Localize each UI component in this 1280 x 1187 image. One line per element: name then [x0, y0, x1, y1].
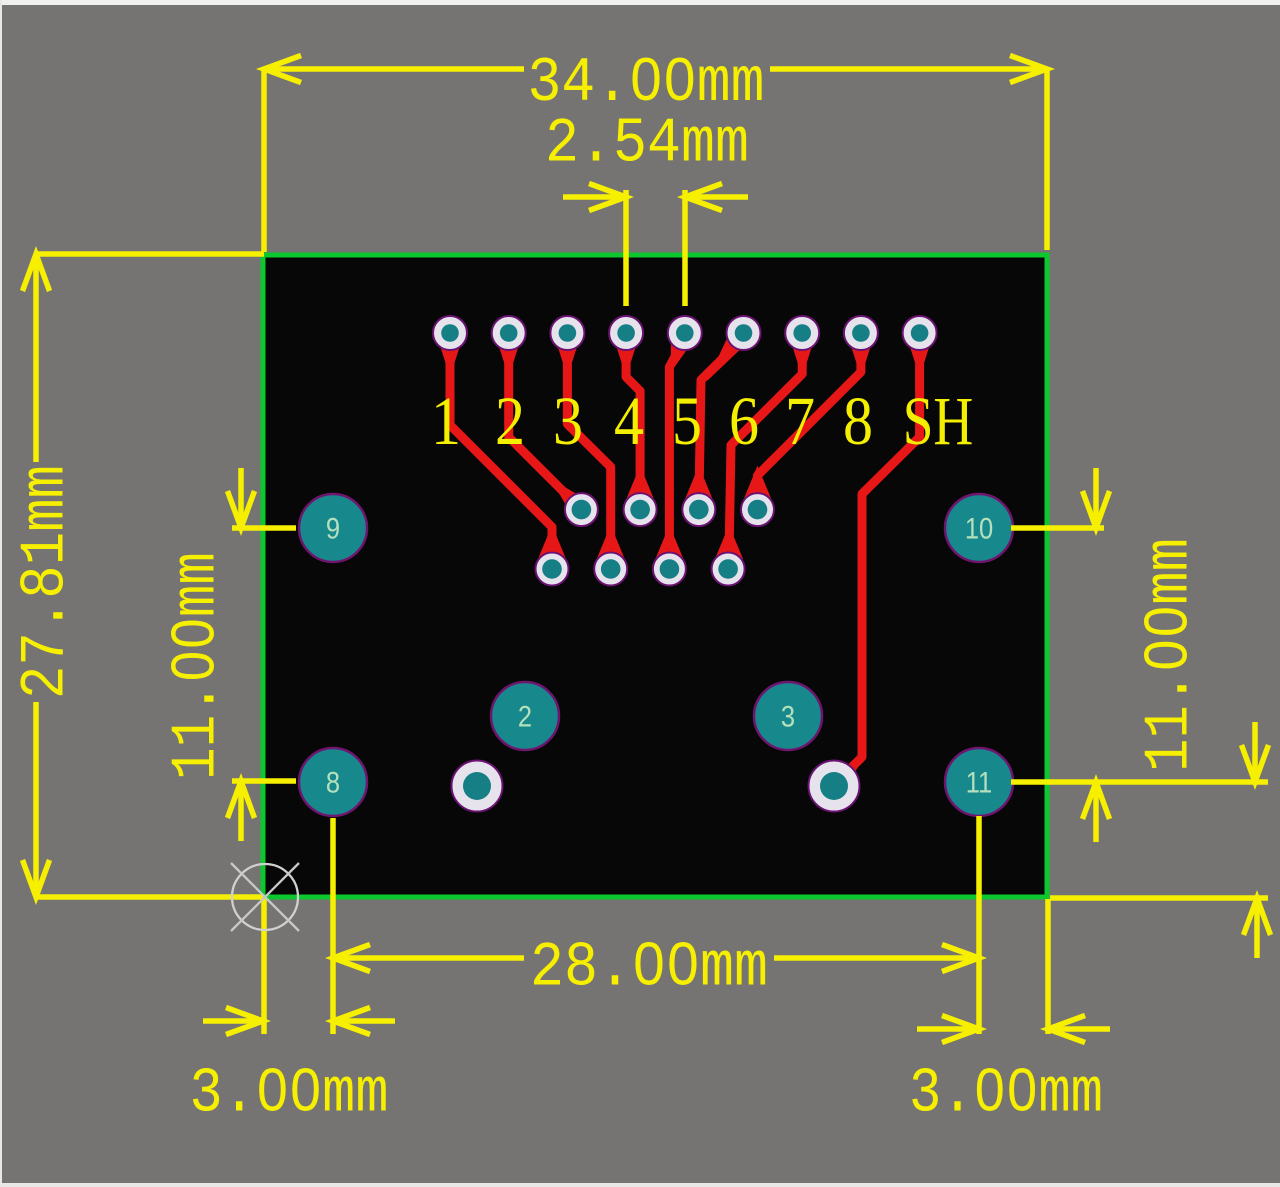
dimension 34.00mm (board width, top) [264, 48, 1047, 252]
svg-text:7: 7 [785, 382, 815, 459]
wire: trace SH header pin to shield hole [817, 333, 934, 803]
svg-text:2: 2 [495, 382, 525, 459]
wire: trace header pin 7 to jack pin 7 [715, 333, 816, 559]
pad: header pin SH (top row) [903, 316, 937, 350]
svg-text:1: 1 [431, 382, 461, 459]
svg-text:6: 6 [729, 382, 759, 459]
pad: header pin 1 (top row) [433, 316, 467, 350]
svg-text:8: 8 [326, 766, 340, 799]
dimension 11.00mm (left, pad9 to pad8) [162, 468, 297, 841]
pad: jack pin 3 (bottom row) [594, 553, 627, 586]
svg-text:27.81mm: 27.81mm [11, 465, 82, 699]
svg-text:10: 10 [965, 512, 993, 545]
dimension 11.00mm (right, pad10 to pad11) [1011, 468, 1268, 842]
pad: jack pin 5 (bottom row) [653, 553, 686, 586]
svg-text:4: 4 [614, 382, 644, 459]
pad 3 (mounting pad) [754, 682, 822, 750]
pad: header pin 7 (top row) [785, 316, 819, 350]
wire: trace header pin 5 to jack pin 5 [655, 333, 698, 569]
wire: trace header pin 8 to jack pin 8 [744, 333, 875, 500]
pad: shield hole left [452, 761, 503, 812]
dimension 27.81mm (board height, left) [11, 254, 265, 897]
svg-text:9: 9 [326, 512, 340, 545]
dimension 28.00mm (pad8 to pad11) [333, 816, 979, 1034]
pad: jack pin 8 (middle row) [741, 493, 774, 526]
PCB board outline [263, 255, 1047, 897]
pad: header pin 5 (top row) [668, 316, 702, 350]
pad: jack pin 6 (middle row) [682, 493, 715, 526]
svg-text:2: 2 [518, 700, 532, 733]
pad: header pin 8 (top row) [844, 316, 878, 350]
pad: jack pin 7 (bottom row) [712, 553, 745, 586]
svg-text:8: 8 [843, 382, 873, 459]
pad 9 (mounting pad) [299, 494, 367, 562]
dimension (right, pad11 line to board bottom edge) [1050, 722, 1271, 958]
svg-text:3: 3 [553, 382, 583, 459]
svg-text:2.54mm: 2.54mm [545, 109, 749, 180]
pad: jack pin 1 (bottom row) [536, 553, 569, 586]
dimension 2.54mm (pin pitch) [545, 109, 749, 307]
pad 2 (mounting pad) [491, 682, 559, 750]
svg-text:3.00mm: 3.00mm [190, 1059, 389, 1130]
pad 8 (mounting pad) [299, 748, 367, 816]
pad: jack pin 4 (middle row) [624, 493, 657, 526]
wire: trace header pin 3 to jack pin 3 [553, 333, 624, 569]
pad: header pin 3 (top row) [550, 316, 584, 350]
(zero-dot patches to mimic CAD font) [187, 73, 1171, 1097]
wire: trace header pin 4 to jack pin 4 [612, 333, 654, 510]
svg-text:5: 5 [672, 382, 702, 459]
pad: header pin 6 (top row) [727, 316, 761, 350]
pad 10 (mounting pad) [945, 494, 1013, 562]
svg-text:3.00mm: 3.00mm [909, 1059, 1103, 1130]
origin crosshair marker [231, 863, 299, 931]
svg-text:11: 11 [966, 766, 992, 799]
dimension 3.00mm (bottom right) [909, 899, 1110, 1130]
wire: trace header pin 1 to jack pin 1 [436, 333, 566, 560]
pad 11 (mounting pad) [945, 748, 1013, 816]
svg-text:3: 3 [781, 700, 795, 733]
labels: pin numbers 1-8 and SH [431, 382, 973, 459]
pad: header pin 4 (top row) [609, 316, 643, 350]
svg-text:SH: SH [903, 382, 974, 459]
pad: jack pin 2 (middle row) [565, 493, 598, 526]
dimension 3.00mm (bottom left) [190, 899, 396, 1130]
pad: shield hole right [809, 761, 860, 812]
wire: trace header pin 6 to jack pin 6 [685, 333, 758, 510]
wire: trace header pin 2 to jack pin 2 [495, 333, 599, 527]
pad: header pin 2 (top row) [492, 316, 526, 350]
